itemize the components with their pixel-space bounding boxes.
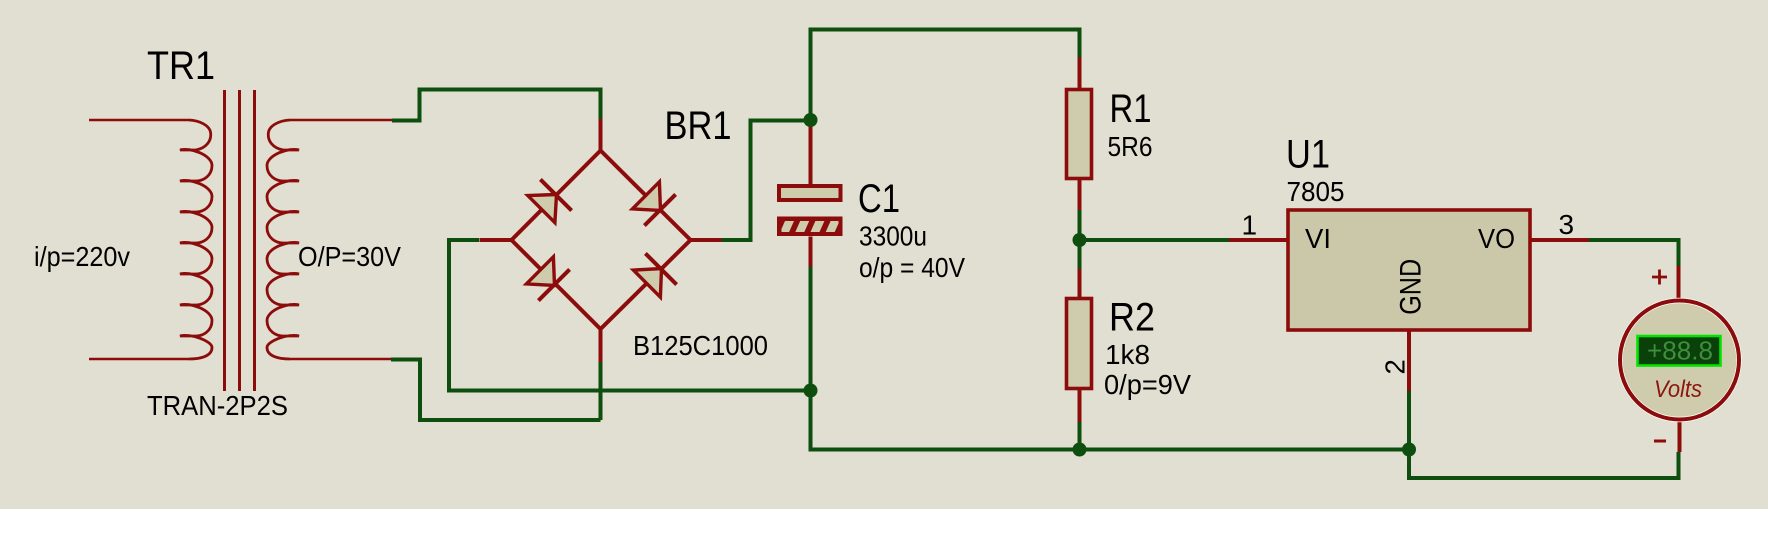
transformer TR1 primary top lead [89, 119, 189, 121]
transformer TR1 primary winding [180, 120, 212, 359]
diode bottom-left (triangle + bar) [526, 257, 569, 301]
wire U1 VO pin to voltmeter plus [1589, 240, 1679, 266]
svg-text:R2: R2 [1109, 296, 1155, 340]
svg-text:BR1: BR1 [665, 104, 732, 148]
wire bottom rail jog to voltmeter minus [1409, 450, 1679, 479]
capacitor C1 top plate [779, 186, 841, 200]
svg-text:O/P=30V: O/P=30V [298, 241, 402, 272]
wire bridge right vertex to C1 top node [721, 121, 811, 241]
resistor R2 top lead [1078, 269, 1082, 297]
svg-text:TRAN-2P2S: TRAN-2P2S [147, 390, 288, 421]
svg-text:5R6: 5R6 [1108, 131, 1153, 162]
voltmeter bottom pin red [1678, 421, 1682, 452]
wire top bus C1 node to R1 top [811, 30, 1080, 121]
minus terminal mark [1654, 440, 1666, 443]
svg-text:i/p=220v: i/p=220v [34, 241, 130, 272]
junction dot C1 bottom node [804, 384, 818, 398]
wire node to U1 VI pin [1080, 238, 1230, 242]
svg-text:o/p = 40V: o/p = 40V [859, 252, 966, 283]
bridge BR1 left pin stub [480, 238, 513, 242]
wire R2 bottom to bottom rail [1078, 422, 1082, 450]
bridge BR1 top pin stub [599, 119, 603, 151]
resistor R2 bottom lead [1078, 390, 1082, 422]
svg-text:GND: GND [1395, 259, 1428, 315]
wire secondary top to bridge top vertex [392, 90, 601, 121]
svg-text:1k8: 1k8 [1105, 339, 1150, 370]
resistor R2 body [1067, 299, 1092, 389]
svg-text:VI: VI [1305, 223, 1331, 254]
voltmeter top pin red [1677, 266, 1681, 300]
U1 pin 1 (VI) red [1229, 238, 1288, 242]
svg-text:Volts: Volts [1654, 376, 1702, 403]
diode top-left (triangle + bar) [528, 179, 572, 222]
wire bridge left vertex to bottom rail [449, 240, 811, 391]
bridge BR1 bottom pin stub [599, 329, 603, 362]
svg-text:1: 1 [1242, 210, 1258, 241]
transformer TR1 secondary top lead [290, 119, 392, 121]
svg-text:VO: VO [1478, 223, 1515, 254]
svg-text:2: 2 [1379, 359, 1410, 374]
resistor R1 body [1067, 90, 1092, 179]
capacitor C1 bottom plate hatched [777, 217, 855, 237]
wire bottom rail C1 node to GND node [811, 391, 1410, 450]
voltmeter body circle [1620, 301, 1739, 420]
resistor R1 top lead [1078, 58, 1082, 89]
junction dot GND rail node [1402, 443, 1416, 457]
U1 pin 3 (VO) red [1530, 238, 1589, 242]
svg-text:B125C1000: B125C1000 [633, 330, 768, 361]
junction dot R1/R2/VI node [1073, 233, 1087, 247]
svg-text:0/p=9V: 0/p=9V [1104, 369, 1192, 400]
wire U1 GND pin down to rail [1407, 391, 1411, 450]
svg-text:TR1: TR1 [147, 44, 215, 88]
bridge BR1 right pin stub [690, 238, 722, 242]
diode bottom-right (triangle + bar) [633, 253, 676, 297]
diode top-right (triangle + bar) [632, 182, 675, 226]
svg-text:C1: C1 [858, 177, 900, 221]
plus terminal mark [1652, 270, 1667, 285]
wire node to R2 top [1078, 240, 1082, 269]
svg-text:3300u: 3300u [859, 221, 927, 252]
svg-text:R1: R1 [1110, 87, 1152, 131]
wire bridge bottom vertex down [599, 361, 603, 420]
svg-text:7805: 7805 [1287, 176, 1345, 207]
transformer TR1 secondary winding [267, 120, 299, 359]
svg-text:U1: U1 [1286, 133, 1330, 177]
svg-text:3: 3 [1559, 209, 1575, 240]
transformer TR1 core [225, 90, 255, 391]
wire secondary bottom to bridge bottom loop [391, 360, 601, 421]
capacitor C1 top lead [809, 122, 813, 184]
svg-text:+88.8: +88.8 [1647, 336, 1713, 366]
wire C1 bottom lead green part [809, 267, 813, 391]
U1 body [1288, 210, 1530, 330]
transformer TR1 primary bottom lead [89, 358, 189, 360]
capacitor C1 bottom lead red part [809, 237, 813, 267]
voltmeter display [1638, 336, 1721, 366]
junction dot R2 bottom rail node [1073, 443, 1087, 457]
U1 pin 2 (GND) red [1407, 330, 1411, 391]
bridge BR1 diamond arms [512, 151, 691, 330]
resistor R1 bottom lead [1078, 180, 1082, 210]
junction dot C1 top node [804, 113, 818, 127]
wire R1 bottom to node [1078, 210, 1082, 240]
transformer TR1 secondary bottom lead [290, 358, 391, 360]
